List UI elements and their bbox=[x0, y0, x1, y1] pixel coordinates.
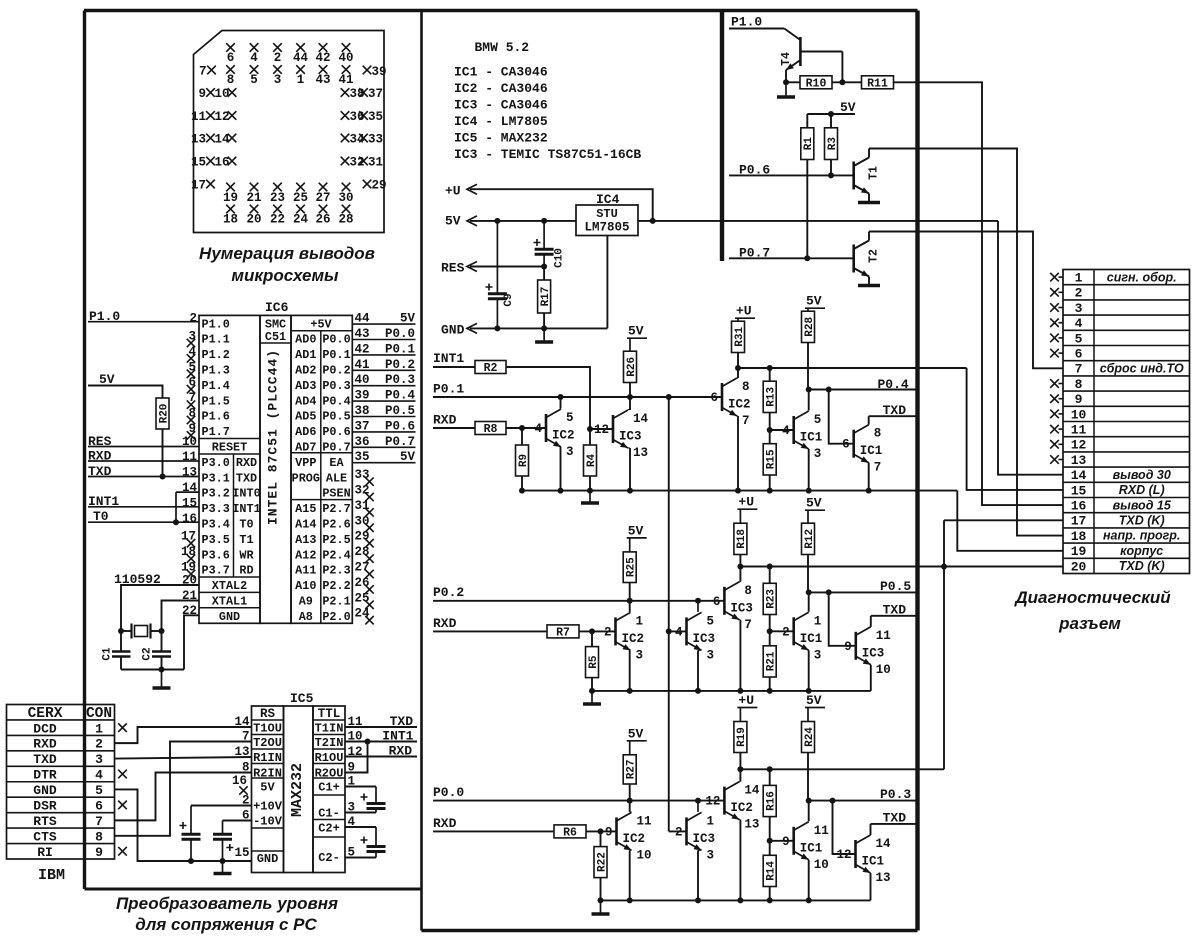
svg-text:R9: R9 bbox=[518, 454, 530, 467]
IBM connector table bbox=[7, 705, 115, 860]
resistor R13 bbox=[769, 368, 771, 381]
ground bbox=[591, 691, 593, 704]
resistor R4 bbox=[584, 445, 597, 476]
IC6 left pin-name column bbox=[199, 315, 260, 623]
wire R2 to IC3 base bbox=[506, 367, 590, 429]
svg-text:EA: EA bbox=[329, 456, 344, 470]
ground bbox=[600, 900, 602, 914]
svg-text:AD0: AD0 bbox=[295, 333, 316, 347]
svg-text:20: 20 bbox=[1071, 559, 1087, 574]
svg-text:Диагностический: Диагностический bbox=[1013, 588, 1171, 607]
svg-text:2: 2 bbox=[189, 312, 197, 326]
svg-text:RXD: RXD bbox=[236, 456, 257, 470]
resistor R28 bbox=[802, 311, 815, 342]
svg-text:R2: R2 bbox=[484, 362, 498, 375]
svg-text:6: 6 bbox=[95, 799, 103, 814]
svg-text:IC3 - CA3046: IC3 - CA3046 bbox=[454, 98, 548, 113]
resistor R1 bbox=[801, 128, 814, 160]
svg-text:R11: R11 bbox=[867, 78, 888, 91]
svg-text:IC2: IC2 bbox=[622, 632, 645, 646]
svg-text:2: 2 bbox=[604, 625, 612, 639]
svg-text:R24: R24 bbox=[804, 727, 816, 747]
svg-text:16: 16 bbox=[215, 156, 230, 170]
svg-text:P2.0: P2.0 bbox=[322, 610, 350, 624]
svg-text:P1.1: P1.1 bbox=[202, 333, 230, 347]
svg-text:AD2: AD2 bbox=[295, 364, 316, 378]
svg-text:8: 8 bbox=[744, 584, 752, 598]
svg-text:R12: R12 bbox=[804, 529, 816, 549]
transistor IC3 pins 4,5,3 bbox=[669, 630, 687, 632]
svg-text:5: 5 bbox=[814, 413, 822, 427]
wire R11 to pin16 bbox=[894, 82, 1064, 505]
resistor R3 bbox=[825, 128, 838, 160]
resistor R16 bbox=[769, 769, 771, 785]
svg-text:разъем: разъем bbox=[1058, 614, 1121, 633]
resistor R23 bbox=[763, 583, 776, 614]
svg-text:5: 5 bbox=[566, 411, 574, 425]
svg-text:14: 14 bbox=[633, 412, 649, 426]
ground bbox=[161, 670, 163, 689]
power label 5V bbox=[627, 740, 647, 742]
svg-text:+U: +U bbox=[445, 184, 461, 199]
svg-text:12: 12 bbox=[594, 423, 609, 437]
svg-text:11: 11 bbox=[814, 824, 829, 838]
node TXD (MAX232 out) bbox=[345, 726, 417, 728]
svg-text:12: 12 bbox=[705, 795, 720, 809]
svg-text:P0.7: P0.7 bbox=[322, 441, 350, 455]
svg-text:BMW 5.2: BMW 5.2 bbox=[475, 40, 530, 55]
power label +U bbox=[737, 707, 757, 709]
svg-text:5: 5 bbox=[1075, 331, 1083, 346]
svg-text:XTAL2: XTAL2 bbox=[212, 579, 247, 593]
svg-text:18: 18 bbox=[1071, 529, 1087, 544]
svg-text:9: 9 bbox=[844, 640, 852, 654]
svg-text:A9: A9 bbox=[299, 595, 313, 609]
svg-text:7: 7 bbox=[874, 461, 882, 475]
svg-text:IC2: IC2 bbox=[623, 832, 646, 846]
resistor R7 bbox=[547, 625, 579, 638]
svg-text:P3.4: P3.4 bbox=[202, 518, 230, 532]
svg-text:7: 7 bbox=[742, 414, 750, 428]
resistor R10 bbox=[800, 76, 832, 89]
svg-text:14: 14 bbox=[876, 837, 892, 851]
resistor R19 bbox=[734, 722, 747, 753]
svg-text:9: 9 bbox=[782, 835, 790, 849]
svg-text:1: 1 bbox=[814, 614, 822, 628]
svg-text:VPP: VPP bbox=[295, 456, 316, 470]
resistor R22 bbox=[600, 831, 602, 846]
resistor R31 bbox=[732, 321, 745, 352]
power label 5V bbox=[627, 537, 647, 539]
PLCC top pin row 2 bbox=[226, 65, 235, 74]
svg-text:P0.1: P0.1 bbox=[385, 342, 415, 356]
svg-text:31: 31 bbox=[368, 156, 383, 170]
ground bus row1 bbox=[522, 490, 957, 492]
node RXD (MAX232 out) bbox=[345, 756, 417, 758]
svg-text:16: 16 bbox=[182, 512, 197, 526]
svg-text:10: 10 bbox=[876, 663, 891, 677]
svg-text:12: 12 bbox=[215, 110, 230, 124]
resistor R16 bbox=[763, 785, 776, 816]
svg-text:7: 7 bbox=[744, 618, 752, 632]
transistor IC2b row1 bbox=[721, 383, 724, 411]
svg-text:9: 9 bbox=[1075, 392, 1083, 407]
ground bus row3 bbox=[601, 899, 871, 901]
svg-text:AD4: AD4 bbox=[295, 394, 316, 408]
svg-text:GND: GND bbox=[257, 852, 279, 866]
svg-text:R2OU: R2OU bbox=[315, 767, 344, 781]
resistor R23 bbox=[769, 567, 771, 584]
svg-text:13: 13 bbox=[182, 466, 197, 480]
svg-text:13: 13 bbox=[191, 133, 206, 147]
svg-text:6: 6 bbox=[842, 438, 850, 452]
svg-text:5V: 5V bbox=[628, 324, 644, 339]
svg-text:сброс инд.ТО: сброс инд.ТО bbox=[1100, 362, 1184, 376]
svg-text:RES: RES bbox=[441, 261, 465, 276]
svg-text:P0.6: P0.6 bbox=[385, 419, 415, 433]
svg-text:STU: STU bbox=[596, 207, 618, 221]
svg-text:RXD: RXD bbox=[433, 413, 457, 428]
svg-text:P0.3: P0.3 bbox=[385, 373, 415, 387]
svg-text:A14: A14 bbox=[295, 518, 316, 532]
wire PC RTS to R2IN pin8 bbox=[115, 773, 252, 821]
transistor IC1a row1 bbox=[792, 416, 795, 444]
ground bbox=[589, 491, 591, 503]
svg-text:3: 3 bbox=[636, 648, 644, 662]
svg-text:23: 23 bbox=[270, 191, 285, 205]
wire R20 to TXD net bbox=[162, 429, 164, 477]
resistor R17 bbox=[543, 267, 545, 281]
svg-text:AD6: AD6 bbox=[295, 425, 316, 439]
svg-text:4: 4 bbox=[675, 625, 683, 639]
resistor R27 bbox=[623, 755, 636, 784]
transistor T2 bbox=[852, 245, 855, 273]
svg-text:18: 18 bbox=[223, 213, 238, 227]
svg-text:R6: R6 bbox=[563, 827, 577, 840]
svg-text:3: 3 bbox=[707, 848, 715, 862]
svg-text:IC1: IC1 bbox=[800, 431, 823, 445]
transistor IC3a row1 bbox=[612, 415, 615, 443]
ground bus row2 bbox=[592, 690, 871, 692]
svg-text:11: 11 bbox=[1071, 423, 1087, 438]
ground bbox=[868, 202, 870, 203]
svg-text:R1: R1 bbox=[803, 137, 815, 151]
transistor IC3b row2 bbox=[723, 587, 726, 615]
transistor T1 bbox=[852, 162, 855, 190]
svg-text:R31: R31 bbox=[734, 327, 746, 347]
svg-text:IC3 - TEMIC TS87C51-16CB: IC3 - TEMIC TS87C51-16CB bbox=[454, 147, 641, 162]
svg-text:C2: C2 bbox=[142, 647, 154, 660]
svg-text:10: 10 bbox=[215, 87, 230, 101]
svg-text:DCD: DCD bbox=[33, 721, 57, 736]
transistor IC1b row1 bbox=[852, 430, 855, 458]
svg-text:9: 9 bbox=[95, 845, 103, 860]
wire K-line net row3 bbox=[740, 768, 944, 770]
svg-text:P3.6: P3.6 bbox=[202, 548, 230, 562]
wire T1 collector to pin18 bbox=[869, 149, 1063, 536]
svg-text:INT1: INT1 bbox=[382, 729, 413, 744]
svg-text:5V: 5V bbox=[400, 312, 416, 326]
svg-text:+10V: +10V bbox=[253, 800, 283, 814]
wire IC4 gnd pin bbox=[606, 236, 608, 329]
wire T2 collector to pin7 bbox=[869, 232, 1063, 369]
svg-text:+U: +U bbox=[736, 304, 752, 319]
transistor IC1a row3 bbox=[792, 827, 795, 855]
wire long vertical to IC3 base row3 bbox=[669, 830, 687, 832]
svg-text:11: 11 bbox=[876, 629, 891, 643]
wire P0.1 long vertical bbox=[668, 397, 670, 831]
PLCC top pin row 1 bbox=[226, 43, 235, 52]
svg-text:P2.2: P2.2 bbox=[322, 579, 350, 593]
svg-text:P0.5: P0.5 bbox=[385, 404, 415, 418]
svg-text:10: 10 bbox=[637, 848, 652, 862]
shared vertical edge between left and middle boxes bbox=[420, 11, 423, 931]
PLCC bottom pin rows bbox=[226, 183, 235, 192]
svg-text:R16: R16 bbox=[766, 791, 778, 811]
svg-text:IC6: IC6 bbox=[265, 300, 289, 315]
svg-text:PROG: PROG bbox=[292, 471, 320, 485]
svg-text:IC1: IC1 bbox=[800, 632, 823, 646]
svg-text:2: 2 bbox=[1075, 286, 1083, 301]
svg-text:21: 21 bbox=[246, 191, 261, 205]
resistor R9 bbox=[521, 428, 523, 445]
svg-text:R7: R7 bbox=[556, 627, 570, 640]
svg-text:IC3: IC3 bbox=[862, 646, 885, 660]
power label 5V bbox=[805, 509, 825, 511]
svg-text:DTR: DTR bbox=[33, 768, 57, 783]
svg-text:41: 41 bbox=[338, 73, 353, 87]
svg-text:8: 8 bbox=[742, 380, 750, 394]
IBM unconnected pins X marks bbox=[118, 723, 127, 732]
svg-text:4: 4 bbox=[95, 768, 103, 783]
svg-text:RS: RS bbox=[260, 707, 276, 721]
transistor IC3c row2 bbox=[854, 632, 857, 660]
svg-text:R4: R4 bbox=[586, 454, 598, 468]
svg-text:P3.1: P3.1 bbox=[202, 471, 230, 485]
PLCC44 package outline bbox=[194, 31, 385, 233]
capacitor C3 (C1+/C1-) bbox=[345, 786, 376, 788]
svg-text:40: 40 bbox=[338, 51, 353, 65]
wire L-net row1 to pin15 bbox=[967, 368, 1063, 490]
svg-text:P0.7: P0.7 bbox=[385, 435, 415, 449]
resistor R17 bbox=[538, 280, 551, 313]
wire L-line net row1 bbox=[738, 367, 967, 369]
svg-text:R18: R18 bbox=[736, 529, 748, 549]
svg-text:R22: R22 bbox=[596, 852, 608, 872]
svg-text:17: 17 bbox=[1071, 514, 1087, 529]
svg-text:R5: R5 bbox=[588, 655, 600, 669]
wire IC4 out to +U net bbox=[638, 220, 998, 222]
svg-text:P2.6: P2.6 bbox=[322, 518, 350, 532]
resistor R1 bbox=[806, 114, 808, 128]
svg-text:C9: C9 bbox=[503, 293, 515, 306]
svg-text:RI: RI bbox=[37, 845, 53, 860]
svg-text:R27: R27 bbox=[626, 759, 638, 779]
svg-text:35: 35 bbox=[368, 110, 383, 124]
svg-text:13: 13 bbox=[876, 871, 891, 885]
svg-text:R25: R25 bbox=[626, 557, 638, 577]
svg-text:Преобразователь уровня: Преобразователь уровня bbox=[116, 894, 338, 913]
svg-text:4: 4 bbox=[782, 424, 790, 438]
svg-text:T2IN: T2IN bbox=[315, 736, 344, 750]
svg-text:P1.0: P1.0 bbox=[202, 317, 230, 331]
transistor IC2a row1 bbox=[545, 414, 548, 442]
svg-text:R28: R28 bbox=[804, 317, 816, 337]
svg-text:5V: 5V bbox=[445, 214, 461, 229]
svg-text:3: 3 bbox=[814, 447, 822, 461]
wire +10V pin2 bbox=[191, 805, 252, 807]
svg-text:8: 8 bbox=[874, 427, 882, 441]
svg-text:P1.5: P1.5 bbox=[202, 394, 230, 408]
middle box right edge bbox=[915, 11, 919, 931]
IC5 MAX232 right column bbox=[313, 706, 345, 873]
svg-text:14: 14 bbox=[744, 784, 760, 798]
svg-text:P2.1: P2.1 bbox=[322, 595, 350, 609]
resistor R11 bbox=[862, 76, 894, 89]
svg-text:25: 25 bbox=[293, 191, 308, 205]
ground bbox=[222, 861, 224, 874]
resistor R25 bbox=[623, 552, 636, 583]
svg-text:5V: 5V bbox=[400, 450, 416, 464]
svg-text:4: 4 bbox=[250, 51, 258, 65]
resistor R15 bbox=[763, 444, 776, 475]
transistor IC1 pins 9,11,10 bbox=[770, 840, 794, 842]
transistor IC2a row3 bbox=[615, 817, 618, 845]
svg-text:RXD (L): RXD (L) bbox=[1119, 483, 1165, 497]
svg-text:Нумерация выводов: Нумерация выводов bbox=[199, 244, 375, 263]
svg-text:13: 13 bbox=[633, 446, 648, 460]
svg-text:16: 16 bbox=[1071, 499, 1087, 514]
svg-text:A11: A11 bbox=[295, 564, 316, 578]
svg-text:3: 3 bbox=[566, 445, 574, 459]
svg-text:TXD: TXD bbox=[236, 471, 257, 485]
svg-text:P0.2: P0.2 bbox=[433, 585, 464, 600]
svg-text:GND: GND bbox=[441, 323, 465, 338]
outer top border bbox=[84, 9, 918, 12]
svg-text:27: 27 bbox=[315, 191, 330, 205]
capacitor bbox=[375, 787, 377, 804]
thick divider of top-right sub-box bbox=[720, 11, 724, 262]
svg-text:IC3: IC3 bbox=[693, 832, 716, 846]
resistor R4 bbox=[589, 429, 591, 445]
middle box bottom edge bbox=[422, 929, 918, 932]
wire K-line net row2 (to pin 20) bbox=[740, 566, 1063, 568]
svg-text:P2.5: P2.5 bbox=[322, 533, 350, 547]
svg-text:5: 5 bbox=[95, 783, 103, 798]
resistor R26 bbox=[624, 351, 637, 382]
wire crystal ground bus / GND pin 22 bbox=[121, 669, 184, 671]
svg-text:29: 29 bbox=[372, 179, 387, 193]
svg-text:+U: +U bbox=[738, 693, 754, 708]
left box frame bbox=[83, 11, 86, 890]
svg-text:C1-: C1- bbox=[318, 807, 340, 821]
capacitor bbox=[375, 827, 377, 847]
svg-text:30: 30 bbox=[338, 191, 353, 205]
svg-text:IC2: IC2 bbox=[728, 398, 751, 412]
svg-text:корпус: корпус bbox=[1120, 544, 1163, 558]
svg-text:6: 6 bbox=[713, 595, 721, 609]
svg-text:P0.2: P0.2 bbox=[322, 364, 350, 378]
svg-text:R23: R23 bbox=[766, 589, 778, 609]
svg-text:11: 11 bbox=[191, 110, 206, 124]
wire P0.5 to IC3 pins 9,11,10 base bbox=[829, 592, 856, 645]
svg-text:-10V: -10V bbox=[253, 815, 283, 829]
svg-text:RXD: RXD bbox=[433, 816, 457, 831]
svg-text:ALE: ALE bbox=[326, 471, 347, 485]
svg-text:1: 1 bbox=[707, 814, 715, 828]
resistor R5 bbox=[586, 647, 599, 678]
svg-text:5V: 5V bbox=[840, 100, 856, 115]
capacitor bbox=[543, 221, 545, 249]
svg-text:A12: A12 bbox=[295, 548, 316, 562]
svg-text:LM7805: LM7805 bbox=[584, 221, 629, 235]
resistor R2 bbox=[475, 361, 506, 374]
svg-text:9: 9 bbox=[605, 825, 613, 839]
svg-text:A10: A10 bbox=[295, 579, 316, 593]
transistor IC3a row2 bbox=[685, 617, 688, 645]
svg-text:TXD (K): TXD (K) bbox=[1119, 514, 1165, 528]
svg-text:P1.4: P1.4 bbox=[202, 379, 230, 393]
svg-text:CTS: CTS bbox=[33, 829, 57, 844]
svg-text:INT1: INT1 bbox=[232, 502, 260, 516]
svg-text:для сопряжения с PC: для сопряжения с PC bbox=[135, 915, 317, 934]
svg-text:R15: R15 bbox=[766, 449, 778, 469]
svg-text:A8: A8 bbox=[299, 610, 313, 624]
svg-text:XTAL1: XTAL1 bbox=[212, 595, 247, 609]
transistor IC3a row3 bbox=[685, 817, 688, 845]
svg-text:R26: R26 bbox=[626, 357, 638, 377]
svg-text:17: 17 bbox=[191, 179, 206, 193]
svg-text:P0.0: P0.0 bbox=[385, 327, 415, 341]
svg-text:C1+: C1+ bbox=[318, 781, 340, 795]
svg-text:RXD: RXD bbox=[433, 616, 457, 631]
transistor IC3 pins 12,14,13 bbox=[590, 428, 613, 430]
svg-text:MAX232: MAX232 bbox=[289, 763, 306, 817]
svg-text:IC4 - LM7805: IC4 - LM7805 bbox=[454, 114, 548, 129]
capacitor C1 bbox=[120, 631, 122, 652]
capacitor bbox=[222, 821, 224, 835]
svg-text:P1.3: P1.3 bbox=[202, 364, 230, 378]
svg-text:7: 7 bbox=[199, 65, 207, 79]
svg-text:10: 10 bbox=[1071, 407, 1087, 422]
svg-text:5: 5 bbox=[250, 73, 258, 87]
IC5 MAX232 left column bbox=[252, 706, 284, 873]
svg-text:A13: A13 bbox=[295, 533, 316, 547]
resistor R14 bbox=[763, 855, 776, 886]
svg-text:R8: R8 bbox=[484, 423, 498, 436]
svg-text:T2: T2 bbox=[868, 249, 881, 263]
svg-text:R20: R20 bbox=[158, 404, 170, 424]
svg-text:3: 3 bbox=[274, 73, 282, 87]
svg-text:P1.6: P1.6 bbox=[202, 410, 230, 424]
ground bbox=[868, 285, 870, 286]
svg-text:28: 28 bbox=[338, 213, 353, 227]
svg-text:T2OU: T2OU bbox=[253, 736, 282, 750]
resistor R8 bbox=[475, 422, 506, 435]
wire R2OU to INT1 bbox=[345, 742, 368, 773]
svg-text:RTS: RTS bbox=[33, 814, 57, 829]
svg-text:IC5: IC5 bbox=[290, 691, 314, 706]
svg-text:R3: R3 bbox=[827, 137, 839, 151]
wire PC GND to GND pin15 bbox=[115, 789, 252, 861]
svg-text:P0.2: P0.2 bbox=[385, 358, 415, 372]
svg-text:10: 10 bbox=[814, 858, 829, 872]
svg-text:22: 22 bbox=[270, 213, 285, 227]
svg-text:T1OU: T1OU bbox=[253, 722, 282, 736]
svg-text:12: 12 bbox=[1071, 438, 1087, 453]
svg-text:CON: CON bbox=[86, 706, 112, 722]
svg-text:T1: T1 bbox=[239, 533, 253, 547]
